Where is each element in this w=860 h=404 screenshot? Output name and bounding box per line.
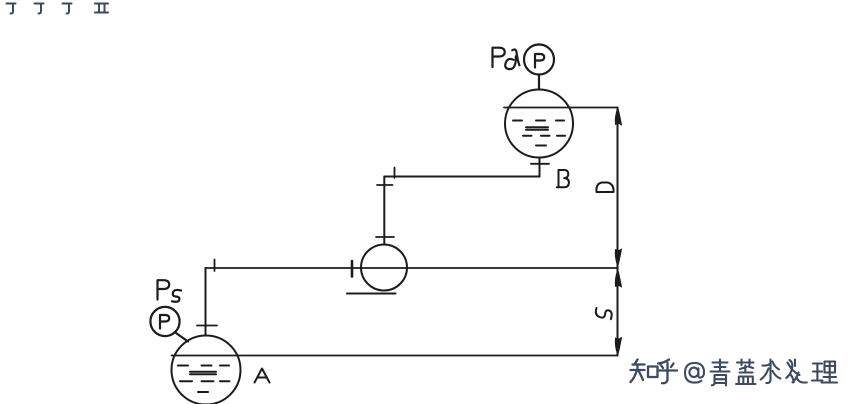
tank A liquid dashes [178, 366, 230, 393]
flange tick riser upper [377, 184, 393, 186]
top-left watermark fragments [7, 4, 109, 14]
wm @ [685, 363, 704, 383]
label D (rotated 90deg CCW: stem at bottom, bump on top) [596, 183, 613, 193]
wm 乎 [658, 360, 678, 384]
wm 水 [761, 360, 781, 384]
dimension arrow top (up) [615, 108, 621, 125]
gauge Pd circle [524, 45, 554, 75]
label A [255, 369, 270, 383]
tank B stub flange tick [531, 163, 549, 165]
gauge Ps circle [150, 307, 179, 336]
label Ps [158, 280, 182, 302]
wm 蓝 [736, 360, 756, 385]
wm 青 [711, 360, 730, 386]
flange tick riser lower [376, 236, 394, 238]
pump centerline / suction line through pump to dimension line [206, 267, 618, 269]
gauge Pd link wire [538, 75, 540, 90]
suction downcomer to tank A [205, 268, 207, 336]
dimension arrow bottom (down) [615, 338, 621, 355]
flange tick on downcomer [197, 325, 217, 327]
tank A [172, 336, 241, 404]
tank B [505, 90, 573, 158]
gauge Ps letter P [160, 315, 169, 329]
label B [557, 170, 569, 187]
flange tick on horizontal discharge pipe [394, 168, 396, 179]
tank B liquid level line / datum to dimension line [504, 107, 618, 109]
gauge Pd letter P [535, 54, 544, 68]
dimension line vertical [617, 108, 619, 356]
tank B bottom stub [539, 158, 541, 177]
tank A liquid level line / datum to dimension line [172, 355, 618, 357]
label Pd [493, 48, 520, 69]
gauge Ps link wire [176, 333, 188, 342]
pump circle [361, 245, 407, 291]
dimension arrow S-top (up) [615, 270, 621, 287]
discharge pipe riser [383, 177, 385, 245]
wm 理 [812, 362, 837, 383]
flange tick suction near corner [214, 260, 216, 272]
dimension arrow D-bottom (down) [615, 249, 621, 266]
tank B liquid dashes [513, 121, 565, 146]
label S (rotated 90deg CCW) [596, 308, 612, 319]
watermark 知乎 @青蓝水处理 [631, 360, 678, 384]
discharge pipe horizontal [384, 176, 539, 178]
wm 知 [631, 360, 658, 383]
flange tick suction near pump [351, 261, 354, 277]
wm 处 [786, 360, 807, 383]
pump base line [347, 293, 396, 295]
